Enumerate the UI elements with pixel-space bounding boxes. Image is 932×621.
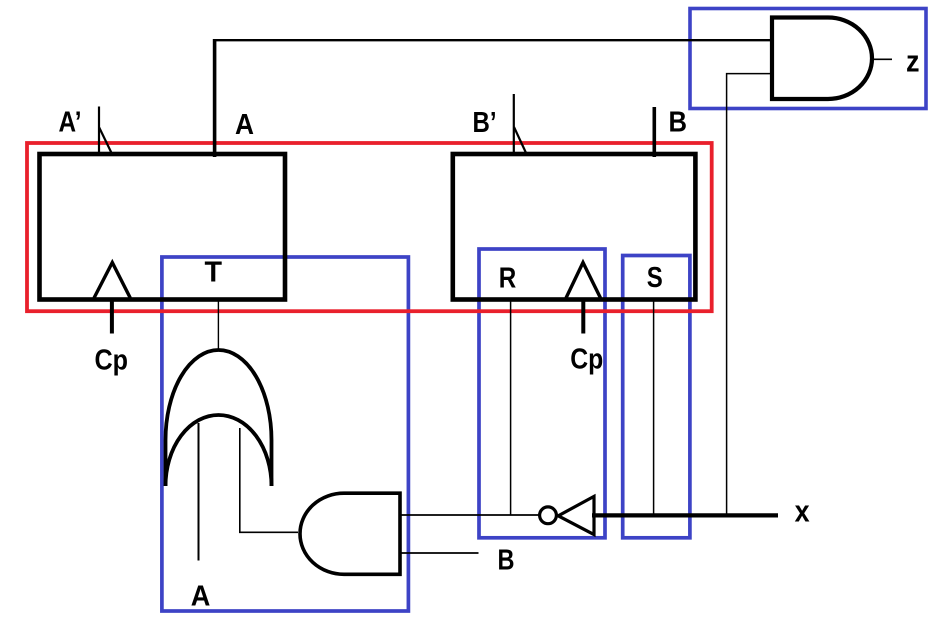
highlight box T (blue): [162, 257, 409, 611]
svg-text:B’: B’: [473, 107, 497, 139]
wire Cp2 stub: [581, 299, 585, 334]
wire B input to AND: [400, 552, 479, 554]
svg-text:z: z: [906, 43, 920, 78]
wire B' stub: [513, 94, 515, 155]
clock input triangle U2: [566, 263, 601, 299]
svg-text:B: B: [669, 107, 688, 139]
svg-text:S: S: [647, 262, 663, 294]
wire A to AND gate (top horizontal): [213, 39, 772, 41]
svg-text:x: x: [795, 494, 811, 529]
highlight box S (blue): [623, 256, 690, 538]
wire x to AND z input 2: [727, 74, 772, 514]
wire x (thick): [592, 513, 778, 517]
and-gate G4 (z output): [772, 18, 872, 100]
wire B (thick vertical): [652, 107, 656, 157]
flip-flop U1 (left box): [40, 154, 286, 300]
wire A' negation tick: [99, 128, 111, 153]
wire A input to OR: [198, 423, 200, 561]
and-gate G2 (pointing left): [300, 493, 400, 574]
svg-text:A: A: [191, 581, 211, 613]
svg-text:R: R: [499, 263, 517, 295]
wire A (thick vertical): [213, 39, 217, 157]
wire T to OR gate: [217, 302, 219, 350]
or-gate G1 input edge (concave): [166, 415, 272, 486]
or-gate G1 (pointing up): [166, 350, 272, 486]
highlight box z (blue): [690, 9, 926, 109]
wire Cp1 stub: [110, 299, 114, 334]
wire B' negation tick: [514, 127, 526, 154]
wire z output: [872, 58, 892, 60]
wire S: [653, 301, 655, 514]
flip-flop U2 (right box): [453, 154, 696, 300]
highlight box flip-flops (red): [27, 143, 712, 311]
svg-text:A: A: [235, 109, 254, 141]
highlight box R (blue): [479, 249, 605, 538]
wire R: [510, 301, 512, 515]
clock input triangle U1: [94, 263, 130, 299]
inverter G3 triangle: [558, 496, 594, 534]
svg-text:T: T: [205, 257, 223, 289]
wire AND output to OR input: [240, 428, 298, 532]
svg-text:Cp: Cp: [95, 344, 129, 376]
wire A' stub: [98, 107, 100, 156]
inverter G3 bubble: [540, 507, 557, 524]
wire inverter output to AND input: [400, 514, 540, 516]
svg-text:B: B: [498, 545, 515, 577]
svg-text:Cp: Cp: [570, 344, 603, 376]
svg-text:A’: A’: [59, 107, 82, 139]
